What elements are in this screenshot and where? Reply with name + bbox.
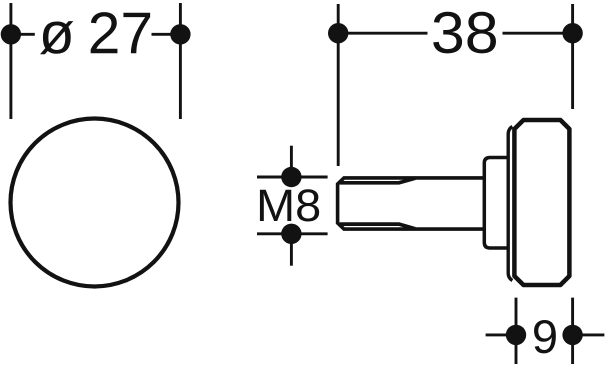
knob back chamfer edge line — [508, 127, 512, 281]
dimension 38: right terminator dot — [562, 23, 582, 43]
dimension o27: diameter symbol — [40, 21, 73, 54]
knob disc side view (thickness 9) — [514, 120, 569, 285]
dimension M8: lower terminator dot — [281, 224, 301, 244]
threaded stud M8: lower thread root line — [340, 224, 415, 229]
dimension 9: right terminator dot — [562, 325, 582, 345]
dimension M8: thread size label M8 — [260, 189, 319, 221]
dimension 38: left extension line — [337, 4, 340, 166]
dimension 9: left dimension-line tail — [486, 333, 516, 336]
dimension o27: left extension line — [9, 3, 12, 119]
dimension M8: upper cross horizontal line — [257, 176, 328, 179]
dimension 9: right extension line — [571, 298, 574, 364]
dimension o27: right extension line — [179, 3, 182, 119]
dimension o27: value label 27 — [91, 12, 150, 53]
dimension o27: left dimension-line segment — [11, 33, 35, 36]
dimension M8: upper terminator dot — [281, 167, 301, 187]
dimension o27: right terminator dot — [170, 24, 190, 44]
dimension 38: left dimension-line segment — [338, 32, 427, 35]
dimension M8: lower cross horizontal line — [257, 232, 328, 235]
dimension M8: upper cross vertical line — [290, 146, 293, 177]
threaded stud M8: outer outline with chamfered end — [338, 178, 484, 229]
dimension 9: left extension line — [515, 298, 518, 364]
dimension 38: left terminator dot — [328, 23, 348, 43]
threaded stud M8: upper thread root line — [340, 178, 415, 183]
dimension 38: value label 38 — [433, 12, 496, 54]
dimension 9: value label 9 — [534, 320, 556, 353]
dimension 38: right extension line — [571, 4, 574, 109]
dimension 38: right dimension-line segment — [503, 32, 573, 35]
dimension M8: lower cross vertical line — [290, 234, 293, 266]
dimension o27: right dimension-line segment — [152, 33, 181, 36]
front view circle (knob face, diameter 27) — [11, 119, 179, 287]
collar flange behind knob — [484, 158, 509, 249]
dimension 9: right dimension-line tail — [573, 333, 605, 336]
dimension o27: left terminator dot — [1, 24, 21, 44]
dimension 9: left terminator dot — [506, 325, 526, 345]
